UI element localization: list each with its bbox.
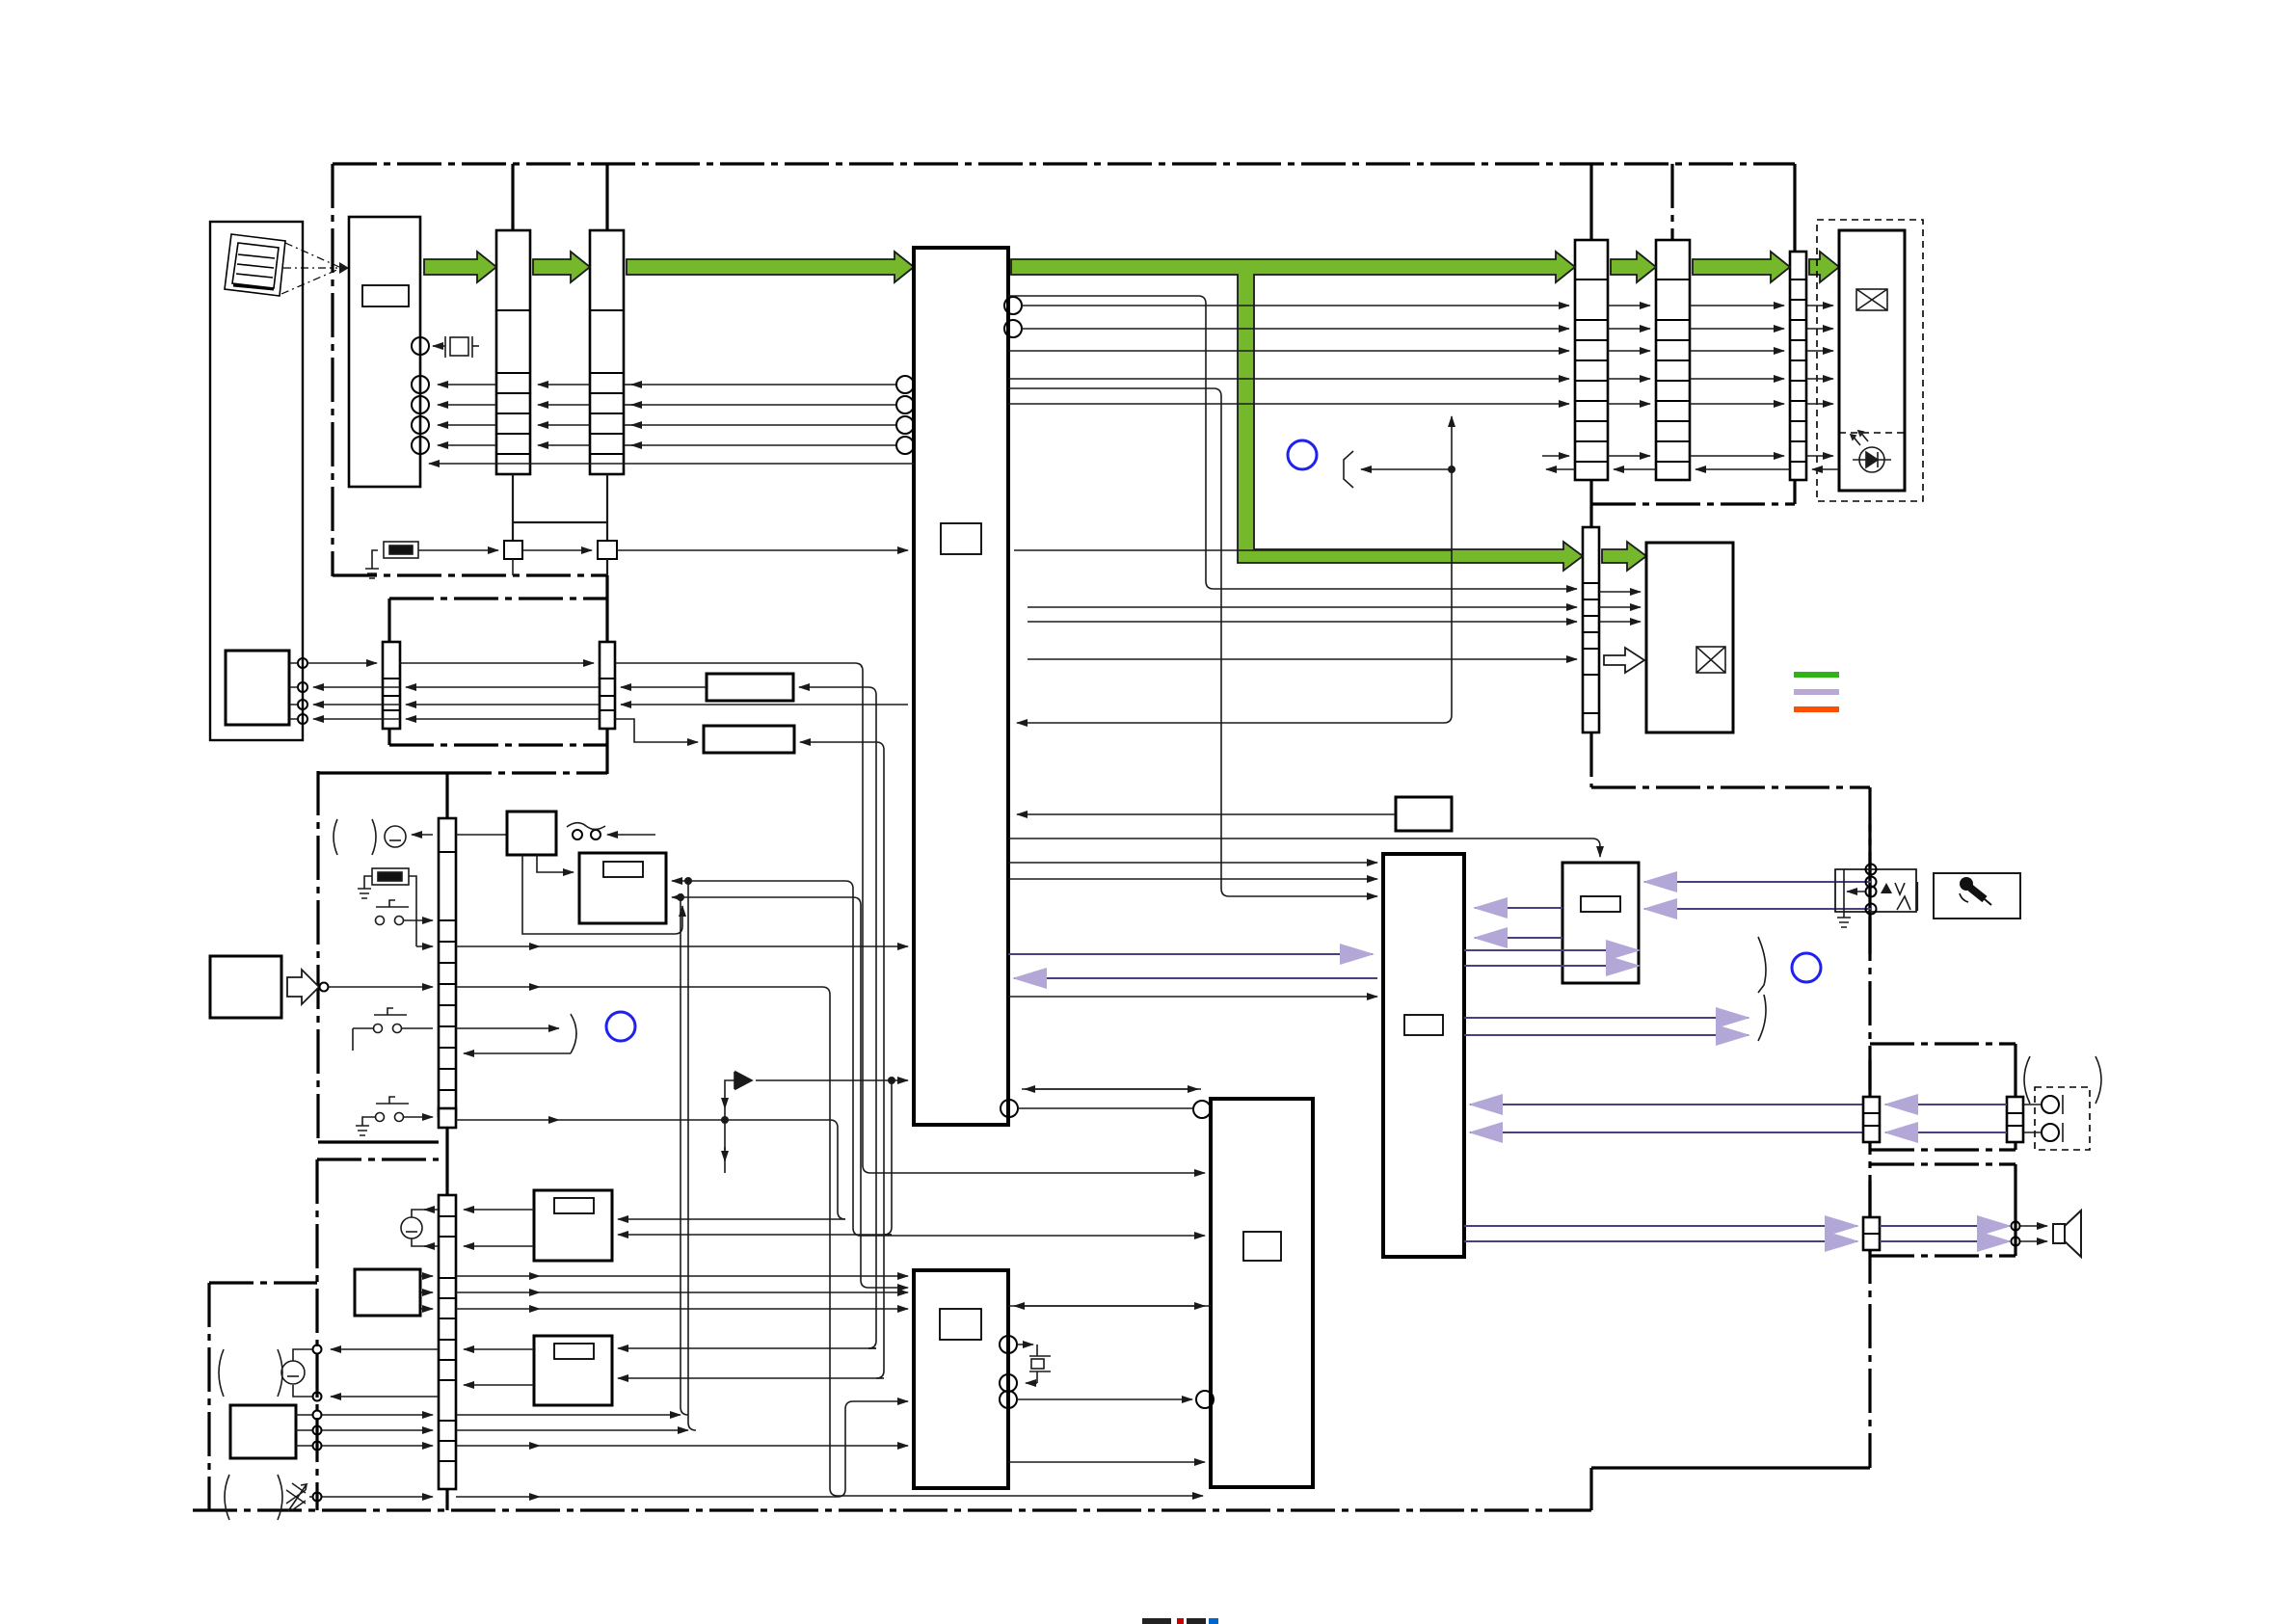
sensor data wire row4 — [438, 444, 496, 446]
headphone section bottom — [1870, 1148, 2016, 1151]
strip link bar — [513, 521, 607, 523]
amp register — [1581, 896, 1620, 912]
lcd block — [1839, 230, 1905, 491]
connector CN strip3 — [1575, 240, 1608, 480]
diode D1 — [734, 1072, 752, 1089]
rail corridor x901 lens clock — [863, 671, 870, 1173]
remote rows — [322, 1414, 433, 1416]
mic box — [1934, 873, 2020, 918]
lens wire row 688 — [307, 662, 377, 664]
jack to amp purple2 — [1644, 908, 1871, 910]
mic wire down — [412, 1238, 439, 1246]
mic wire up — [412, 1210, 439, 1217]
board outline camera left — [331, 164, 334, 576]
led1 wire1 — [464, 1209, 534, 1211]
av jack spring — [1897, 896, 1910, 910]
fuse2 ground — [358, 876, 372, 898]
strip2 bottom stub — [606, 474, 608, 541]
rail corridor x909 — [868, 695, 876, 1348]
mcu row 1217 — [870, 1172, 1205, 1174]
image sensor block — [349, 217, 420, 487]
switch A — [376, 900, 410, 925]
connector CN strip1 — [496, 230, 530, 474]
mcu row 1282 — [861, 1235, 1205, 1237]
board outline step — [605, 575, 608, 599]
rail feed B9 — [868, 1287, 908, 1289]
strip6 row 684 — [1028, 658, 1577, 660]
remote pins — [296, 1415, 312, 1446]
dc wire row — [329, 986, 433, 988]
battery wire — [412, 834, 433, 836]
sensor register box — [362, 285, 409, 306]
green main band dsp to strip3 with branch — [1011, 252, 1583, 571]
av jack body — [1835, 869, 1916, 912]
coin wire down — [293, 1385, 312, 1397]
headphone dashed box — [2035, 1087, 2090, 1150]
headphone conn1 — [1863, 1097, 1880, 1142]
osc pad2 — [598, 541, 617, 559]
lcd module dashed outline — [1817, 220, 1923, 501]
board outline below strip6 — [1589, 732, 1592, 787]
green arrow strip1 to strip2 — [533, 252, 590, 282]
headphone dashed section top — [1870, 1042, 2016, 1045]
headphone link purple2 — [1885, 1131, 2007, 1133]
board outline battery box top — [318, 771, 447, 774]
dsp pin a — [1004, 297, 1022, 314]
board outline right col strip4 feed — [1670, 164, 1673, 241]
lcd return row — [1812, 468, 1839, 470]
headphone cup R — [2042, 1124, 2059, 1141]
headphone conn2 — [2007, 1097, 2023, 1142]
lens projection dashed rays — [281, 243, 339, 294]
reset switch circles — [573, 830, 582, 839]
headphone purple row1 — [1470, 1104, 1863, 1105]
strip6 row 645 — [1028, 621, 1577, 623]
av jack sym — [1881, 883, 1892, 893]
rail corridor x917 — [876, 750, 884, 1378]
audio codec block — [1383, 854, 1464, 1257]
speaker conn — [1863, 1217, 1880, 1250]
speaker link purple2 — [1880, 1240, 2010, 1242]
battery to reset wire — [456, 834, 507, 836]
blue circle note3 — [1792, 953, 1821, 982]
board outline camera bottom — [333, 573, 607, 576]
dc white arrow — [287, 970, 319, 1004]
pad1 down stub — [512, 559, 514, 575]
headphone purple row2 — [1470, 1131, 1863, 1133]
lcd wire row1 — [1022, 305, 1569, 306]
board outline strip3-strip6 link — [1589, 480, 1592, 528]
board outline remote box top — [209, 1281, 317, 1284]
board outline right col strip3 feed — [1589, 164, 1592, 241]
IC camera DSP — [914, 248, 1008, 1125]
rail mid B top — [1008, 388, 1221, 396]
led block1 — [534, 1190, 612, 1261]
board outline key box top — [317, 1158, 439, 1160]
amp to codec purple2 — [1475, 937, 1562, 939]
subcpu pin x2 — [1000, 1374, 1017, 1392]
led1 supply2 — [618, 1234, 892, 1236]
speaker purple row1 — [1464, 1225, 1857, 1227]
lens wire row 731 — [313, 704, 400, 706]
board outline remote box left — [207, 1283, 210, 1510]
switch B — [353, 1008, 433, 1051]
av jack plug bar — [1916, 882, 1918, 911]
reset block — [507, 812, 556, 855]
connector CN strip6 — [1583, 527, 1599, 732]
codec row 930 — [1221, 889, 1377, 896]
photo parens — [225, 1475, 282, 1520]
board outline lens top — [389, 597, 607, 599]
lcd panel crossed box — [1856, 289, 1887, 310]
lcd wire row4 — [1008, 378, 1569, 380]
key bracket — [571, 1014, 576, 1053]
remote receiver block — [230, 1405, 296, 1458]
mid vert rail — [1451, 469, 1453, 550]
osc pad1 — [504, 541, 522, 559]
switch C ground — [356, 1117, 375, 1135]
key send arrow — [456, 1027, 559, 1029]
headphone link purple1 — [1885, 1104, 2007, 1105]
strip6 row 630 — [1028, 606, 1577, 608]
sensor data wire row2 — [438, 404, 496, 406]
board outline lens right upper — [605, 599, 608, 642]
mic icon — [1960, 877, 1991, 905]
led2 wire1 — [464, 1348, 534, 1350]
subcpu register — [940, 1309, 981, 1340]
motor driver1 — [707, 674, 793, 701]
audio R purple from codec — [1014, 977, 1377, 979]
sensor return wire — [429, 463, 914, 465]
board outline right edge — [1793, 164, 1796, 253]
sensor pin circles dsp side — [896, 376, 914, 393]
detect register — [603, 862, 643, 877]
video out block — [1646, 543, 1733, 732]
coin battery circle — [281, 1361, 305, 1384]
wire strip8 bottom feed — [445, 1489, 448, 1510]
pad2 down stub — [606, 559, 608, 575]
rotary out rows — [456, 1275, 540, 1277]
clock module box — [1396, 797, 1452, 831]
line out purple2 — [1464, 965, 1639, 967]
line out purple1 — [1464, 949, 1639, 951]
lcd wire row2 — [1022, 328, 1569, 330]
subcpu row low — [1008, 1461, 1205, 1463]
lens ray arrow — [339, 262, 349, 274]
reset stub wire — [607, 834, 655, 836]
motor pin2 — [298, 682, 307, 692]
coin row1 — [331, 1348, 439, 1350]
motor driver2 — [704, 726, 794, 753]
codec feed row b — [1008, 839, 1600, 857]
board outline key box left — [315, 1159, 318, 1510]
board outline av top — [1591, 785, 1870, 788]
rotary encoder block — [355, 1269, 420, 1316]
board outline battery box bottom — [318, 1140, 439, 1143]
photo wire — [309, 1496, 312, 1498]
row 611 to strip6 — [1214, 588, 1577, 590]
battery sym circle — [385, 826, 406, 847]
camera lens assembly box — [210, 222, 303, 740]
wire strip8a bottom feed — [445, 1116, 448, 1195]
audio L purple to codec — [1008, 953, 1373, 955]
board outline lcd area bottom — [1591, 502, 1795, 505]
headphone cup L — [2042, 1096, 2059, 1113]
battery parens — [334, 819, 376, 855]
lcd wire row3 — [1008, 350, 1569, 352]
lens wire row 746 — [313, 718, 400, 720]
diode branch — [725, 1080, 734, 1108]
dsp pin b — [1004, 320, 1022, 337]
driver1 supply — [799, 686, 868, 688]
led2 wire2 — [464, 1384, 534, 1386]
green arrow strip6 to videoout — [1602, 542, 1646, 571]
lens icon — [225, 234, 285, 296]
led1 register — [554, 1198, 594, 1213]
rail corridor x869 — [838, 1128, 845, 1219]
driver2 supply — [800, 741, 876, 743]
led block2 — [534, 1336, 612, 1405]
board outline right edge low — [1793, 480, 1796, 504]
coin node2 — [313, 1393, 322, 1401]
strip6 rows to video — [1599, 591, 1641, 593]
motor stub wires — [289, 663, 298, 719]
rail corridor x861 — [830, 995, 1203, 1496]
lens wire row 713 — [313, 686, 400, 688]
board outline main top — [333, 162, 1795, 165]
codec feed row a — [1017, 813, 1396, 815]
board outline av bottom link — [1589, 1468, 1592, 1510]
green arrow strip2 to dsp — [627, 252, 914, 282]
pad row wire — [456, 1119, 559, 1121]
headphone section right — [2014, 1044, 2016, 1150]
crystal X2 — [1017, 1344, 1051, 1383]
mic capsule circle — [401, 1217, 422, 1238]
motor pin1 — [298, 658, 307, 668]
connector CN strip7b — [600, 642, 615, 729]
codec row 895 — [1008, 862, 1377, 864]
rail mid B — [1220, 396, 1222, 889]
lens motor block — [226, 651, 289, 725]
subcpu clk wire — [1017, 1398, 1192, 1400]
green arrow strip5 to lcd — [1809, 252, 1839, 282]
speaker dashed section top — [1870, 1162, 2016, 1165]
legend orange line — [1794, 706, 1839, 712]
led2 supply2 — [618, 1377, 876, 1379]
connector CN strip2 — [590, 230, 624, 474]
speaker feed lines — [2020, 1225, 2047, 1227]
board outline lens left — [387, 599, 390, 642]
coin parens — [219, 1349, 282, 1397]
footer text fragment — [1142, 1618, 1218, 1624]
led2 register — [554, 1344, 594, 1359]
clock fuse ground — [365, 550, 379, 578]
fuse2 wire down — [409, 876, 416, 946]
speaker purple row2 — [1464, 1240, 1857, 1242]
subcpu pin clk — [1000, 1391, 1017, 1408]
pointer chevron — [1344, 451, 1353, 488]
sensor data wire row3 — [438, 424, 496, 426]
board outline lens bottom — [389, 743, 607, 746]
headphone wires — [2023, 1105, 2042, 1132]
detect junction — [677, 893, 684, 901]
mcu pin a — [1193, 1101, 1211, 1118]
green arrow strip3 to strip4 — [1611, 252, 1656, 282]
rail corridor x893 — [861, 905, 868, 1288]
subcpu-mcu bus — [1008, 1305, 1211, 1307]
headphone parens — [2024, 1056, 2101, 1104]
audio amp block — [1562, 863, 1639, 983]
jack to amp purple1 — [1644, 881, 1871, 883]
wire strip1 top feed — [511, 164, 514, 230]
board outline page bottom — [193, 1508, 1591, 1511]
reset wave — [567, 823, 605, 830]
junction dot — [1448, 466, 1455, 473]
legend lavender line — [1794, 689, 1839, 695]
IC subcpu flash — [914, 1270, 1008, 1488]
connector CN strip8 key — [439, 1195, 456, 1489]
detect out row1 — [672, 880, 845, 882]
diode supply wire — [756, 1079, 908, 1081]
codec register — [1404, 1015, 1443, 1035]
group out purple2 — [1464, 1034, 1749, 1036]
connector CN strip5 fine — [1790, 252, 1806, 480]
rail mid A top — [1008, 296, 1206, 304]
lcd wire row5 — [1008, 403, 1569, 405]
diode node — [721, 1116, 729, 1124]
green arrow sensor to strip1 — [424, 252, 496, 282]
switch C wire — [404, 1116, 433, 1118]
reset feed down2 — [537, 855, 574, 872]
sensor data wire row1 — [438, 384, 496, 386]
blue circle note2 — [606, 1012, 635, 1041]
led1 supply1 — [618, 1218, 845, 1220]
sensor pins — [412, 376, 429, 393]
speaker section bottom — [1870, 1254, 2016, 1257]
subcpu pin x1 — [1000, 1336, 1017, 1353]
motor pin4 — [298, 714, 307, 724]
board outline av right — [1868, 787, 1871, 1468]
photo row — [456, 1496, 540, 1498]
coin row2 — [331, 1396, 439, 1398]
board outline lens right lower — [605, 729, 608, 774]
speaker icon — [2053, 1211, 2081, 1257]
photo node — [313, 1493, 322, 1502]
video out crossed box — [1696, 647, 1725, 673]
power rail row — [416, 945, 433, 947]
led1 wire2 — [464, 1245, 534, 1247]
switch C — [376, 1097, 410, 1122]
rail corridor x925 — [884, 1080, 892, 1235]
speaker node2 — [2012, 1238, 2020, 1246]
av jack return arrow — [1847, 891, 1865, 892]
clock fuse symbol — [384, 542, 418, 558]
connector CN strip8a battery — [439, 818, 456, 1116]
speaker section right — [2014, 1164, 2016, 1256]
bracket audio group — [1758, 937, 1766, 1041]
mcu register box — [1243, 1232, 1281, 1261]
dsp register box — [941, 523, 981, 554]
green arrow strip4 to strip5 — [1693, 252, 1790, 282]
photo sensor symbol — [286, 1483, 307, 1511]
connector CN strip4 — [1656, 240, 1690, 480]
led2 supply1 — [618, 1347, 876, 1349]
switch A wire — [404, 919, 433, 921]
board outline battery box left — [316, 771, 319, 1142]
mcu pin clk — [1196, 1391, 1214, 1408]
mid rail arrows — [1451, 416, 1453, 469]
rotary wires — [420, 1275, 433, 1277]
connector pad key — [439, 1108, 456, 1128]
dsp-mcu bus wire — [1022, 1088, 1201, 1090]
blue circle note1 — [1288, 440, 1317, 469]
motor pin3 — [298, 700, 307, 709]
key return arrow — [464, 1052, 571, 1054]
rail mid A — [1206, 304, 1214, 589]
speaker node1 — [2012, 1222, 2020, 1231]
board outline av bottom — [1591, 1466, 1870, 1469]
amp to codec purple1 — [1475, 907, 1562, 909]
av jack contacts — [1866, 865, 1877, 875]
group out purple1 — [1464, 1017, 1749, 1019]
white arrow to video jack — [1604, 648, 1644, 673]
dsp-mcu link wire — [1018, 1107, 1193, 1109]
backlight LED — [1851, 431, 1891, 472]
speaker link purple1 — [1880, 1225, 2010, 1227]
pointer wire — [1361, 468, 1452, 470]
coin wire up — [293, 1349, 312, 1361]
codec row 912 — [1008, 878, 1377, 880]
coin node1 — [313, 1345, 322, 1354]
codec row 1034 — [1008, 996, 1377, 998]
legend green line — [1794, 672, 1839, 678]
rail corridor x885 — [853, 889, 861, 1236]
detect out row2 — [672, 896, 853, 898]
lcd backlight dashed divider — [1839, 432, 1905, 434]
IC microcontroller — [1211, 1099, 1313, 1487]
crystal X1 — [433, 336, 479, 358]
reset feed down1 — [522, 855, 682, 934]
dc in block — [210, 956, 281, 1018]
battery detect block — [579, 853, 666, 923]
strip1 bottom stub — [512, 474, 514, 541]
connector CN strip7 — [383, 642, 400, 729]
wire strip2 top feed — [605, 164, 608, 230]
wire strip8a top feed — [445, 773, 448, 819]
clock row wire — [418, 549, 498, 551]
sensor pin xtal — [412, 337, 429, 355]
av jack ground — [1837, 869, 1851, 927]
dsp pin c — [1001, 1100, 1018, 1117]
lcd stub row — [1542, 455, 1569, 457]
dc node circle — [320, 983, 329, 992]
fuse2 symbol — [372, 868, 409, 885]
